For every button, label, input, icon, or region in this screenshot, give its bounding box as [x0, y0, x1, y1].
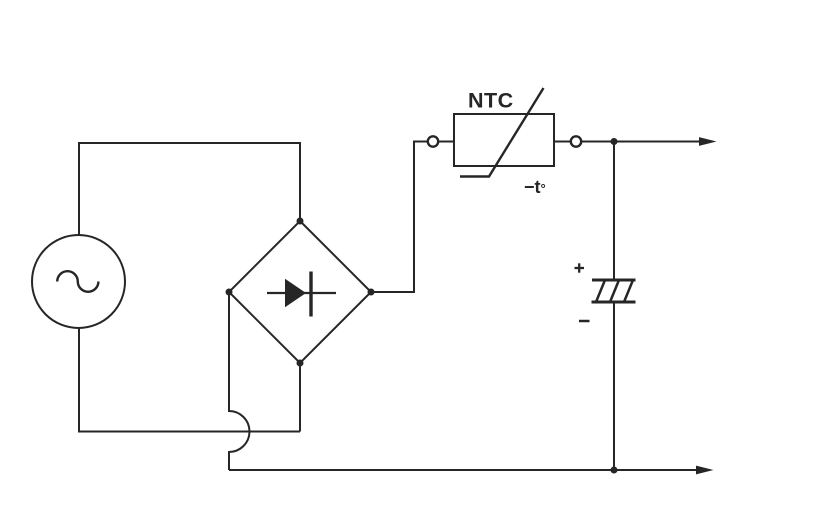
bridge rectifier diamond — [229, 221, 371, 363]
bridge diode cathode bar — [309, 272, 312, 317]
wire AC source bottom to bridge bottom riser — [79, 328, 300, 432]
node junction top — [611, 138, 618, 145]
output arrow minus — [614, 469, 697, 471]
wire terminal to NTC body — [438, 141, 454, 143]
NTC thermistor strike line — [460, 88, 544, 177]
node bridge right vertex — [368, 289, 375, 296]
wire bridge minus output down with hop — [229, 292, 250, 470]
AC source sine symbol — [57, 271, 98, 292]
AC source G1 circle — [32, 235, 125, 328]
NTC thermistor body — [454, 114, 554, 166]
label battery plus — [575, 267, 585, 269]
wire battery to bottom rail — [613, 302, 615, 470]
battery hatch line 1 — [596, 280, 605, 302]
battery hatch line 3 — [624, 280, 633, 302]
wire bridge bottom riser — [299, 363, 301, 432]
node junction bottom — [611, 467, 618, 474]
node bridge top vertex — [297, 218, 304, 225]
wire bridge plus output to NTC — [371, 142, 428, 293]
wire bottom rail — [229, 469, 614, 471]
bridge diode triangle — [285, 279, 306, 307]
svg-text:NTC: NTC — [468, 89, 514, 113]
wire right terminal to junction — [581, 141, 614, 143]
node bridge left vertex — [226, 289, 233, 296]
wire top-left loop from AC source to bridge top — [79, 143, 300, 235]
battery hatch line 2 — [610, 280, 619, 302]
output arrow plus — [614, 141, 700, 143]
battery GB1 bottom plate — [592, 301, 636, 304]
wire junction down to battery — [613, 142, 615, 281]
node bridge bottom vertex — [297, 360, 304, 367]
bridge diode horizontal line — [267, 292, 336, 294]
terminal left of NTC — [428, 136, 438, 146]
terminal right of NTC — [571, 136, 581, 146]
battery GB1 top plate — [592, 279, 636, 282]
label battery minus — [579, 320, 590, 323]
wire NTC body to right terminal — [554, 141, 571, 143]
